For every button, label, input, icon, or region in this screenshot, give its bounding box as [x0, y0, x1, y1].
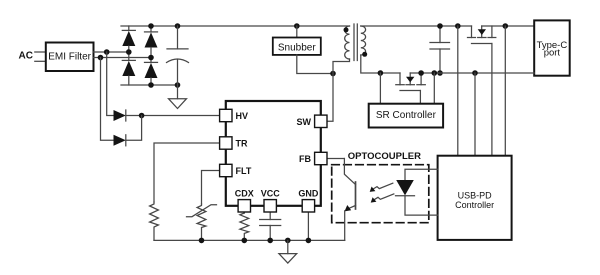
node dot output cap bottom	[437, 70, 443, 76]
EMI filter block	[46, 43, 94, 72]
SR Controller block	[369, 104, 443, 128]
transformer T1 secondary winding	[361, 26, 366, 55]
node dot Q2 source	[418, 70, 424, 76]
wire EMI output upper	[94, 51, 129, 53]
pin VCC	[264, 200, 276, 212]
wire SR drain sense down	[379, 73, 381, 104]
Type-C port block	[534, 20, 570, 75]
pin FB	[315, 152, 327, 164]
node bridge left AC junction	[126, 49, 132, 55]
node dot after Q1	[503, 23, 509, 29]
node dot bulk cap bottom	[175, 82, 181, 88]
pin TR	[220, 137, 232, 149]
wire rail after Q2	[410, 72, 534, 74]
node dot output cap top	[437, 23, 443, 29]
transformer core lines	[353, 24, 355, 61]
wire HV line	[126, 115, 220, 117]
wire FLT line	[202, 171, 220, 205]
capacitor output C2	[430, 26, 450, 73]
wire bridge bottom rail	[121, 84, 178, 86]
svg-text:GND: GND	[298, 188, 319, 198]
svg-text:USB-PD: USB-PD	[458, 190, 493, 200]
wire clamp lower to junction	[126, 116, 142, 141]
transistor opto phototransistor	[344, 159, 355, 241]
svg-text:FB: FB	[299, 154, 311, 164]
node dot bulk cap top	[175, 23, 181, 29]
node junction dot upper EMI output	[104, 49, 110, 55]
svg-text:CDX: CDX	[235, 188, 254, 198]
svg-text:SR Controller: SR Controller	[376, 110, 437, 121]
node dot SR vdd	[432, 70, 438, 76]
pin HV	[220, 109, 232, 121]
wire rail after Q1	[482, 25, 535, 27]
node dot before Q1	[455, 23, 461, 29]
diode D3 bridge top-right	[145, 26, 158, 62]
capacitor C3 VCC	[260, 212, 281, 240]
node dot ground tap	[285, 238, 291, 244]
wire FB line	[327, 158, 344, 160]
wire snubber top stem	[296, 26, 298, 38]
resistor R2 CDX	[240, 213, 249, 240]
ground secondary-side of IC	[279, 240, 297, 263]
transformer T1 primary winding	[345, 26, 350, 59]
resistor R1 TR	[150, 202, 159, 240]
svg-text:OPTOCOUPLER: OPTOCOUPLER	[348, 151, 421, 162]
node dot return sense	[472, 70, 478, 76]
node dot CDX bottom	[242, 238, 248, 244]
wire secondary bottom	[361, 55, 400, 73]
svg-text:port: port	[544, 47, 561, 58]
node dot snubber tap	[294, 23, 300, 29]
node dot bridge top-right rail	[148, 23, 154, 29]
wire TR line	[154, 143, 220, 202]
wire bottom rail	[154, 239, 345, 241]
node dot SR drain sense	[378, 70, 384, 76]
svg-text:SW: SW	[297, 117, 312, 127]
node dot bridge bottom-right rail	[148, 82, 154, 88]
svg-text:Snubber: Snubber	[278, 42, 316, 53]
wire VBUS out sense down	[504, 26, 506, 156]
wire snubber bottom	[297, 55, 333, 74]
wire gate Q1 down to USB-PD	[491, 44, 493, 156]
light arrow 2	[371, 194, 394, 203]
node clamp junction dot	[139, 113, 145, 119]
node dot thermistor bottom	[199, 238, 205, 244]
wire SR gate down	[419, 91, 421, 104]
wire return sense down to USB-PD	[474, 73, 476, 156]
node bridge right AC junction	[148, 55, 154, 61]
diode D2 bridge bottom-left	[122, 60, 135, 85]
transistor Q2 SR MOSFET	[396, 73, 426, 91]
pin SW	[315, 115, 327, 127]
thermistor RT1	[187, 204, 217, 240]
diode D4 bridge bottom-right	[145, 62, 158, 85]
optocoupler dashed box	[332, 165, 429, 223]
wire secondary top rail	[361, 25, 472, 27]
diode D1 bridge top-left	[122, 26, 135, 60]
node primary phase dot	[344, 27, 349, 32]
diode clamp upper	[114, 110, 126, 121]
svg-text:VCC: VCC	[261, 188, 281, 198]
node secondary phase dot	[362, 52, 367, 57]
wire CDX stem	[243, 212, 245, 213]
op-amp U1 main controller IC outline	[226, 101, 321, 206]
wire clamp upper vertical	[107, 52, 114, 116]
pin GND	[302, 200, 314, 212]
snubber block	[273, 38, 321, 55]
pin CDX	[238, 200, 250, 212]
node dot VCC bottom	[267, 238, 273, 244]
svg-text:TR: TR	[236, 139, 248, 149]
wire clamp lower vertical	[101, 58, 114, 141]
svg-text:HV: HV	[236, 111, 249, 121]
node junction dot lower EMI output	[98, 55, 104, 61]
diode clamp lower	[114, 135, 126, 146]
pin FLT	[220, 164, 232, 176]
svg-text:EMI Filter: EMI Filter	[48, 51, 91, 62]
ground primary	[169, 85, 187, 109]
light arrow 1	[370, 183, 393, 192]
wire AC line 1	[35, 51, 46, 53]
USB-PD Controller block	[438, 156, 512, 240]
svg-text:AC: AC	[19, 50, 33, 61]
LED opto diode	[396, 169, 438, 215]
wire primary bottom to SW	[327, 59, 350, 121]
node dot snubber/SW junction	[330, 71, 336, 77]
transistor Q1 load switch	[468, 26, 496, 44]
wire VBUS sense down	[457, 26, 459, 156]
wire EMI output lower	[94, 57, 152, 59]
svg-text:FLT: FLT	[236, 166, 252, 176]
wire AC line 2	[35, 60, 46, 62]
svg-text:Controller: Controller	[455, 200, 494, 210]
node dot GND bottom	[306, 238, 312, 244]
wire primary top rail	[121, 25, 350, 27]
capacitor bulk C1	[167, 26, 189, 85]
wire GND stem	[307, 212, 309, 240]
wire SR vdd down	[433, 73, 435, 104]
